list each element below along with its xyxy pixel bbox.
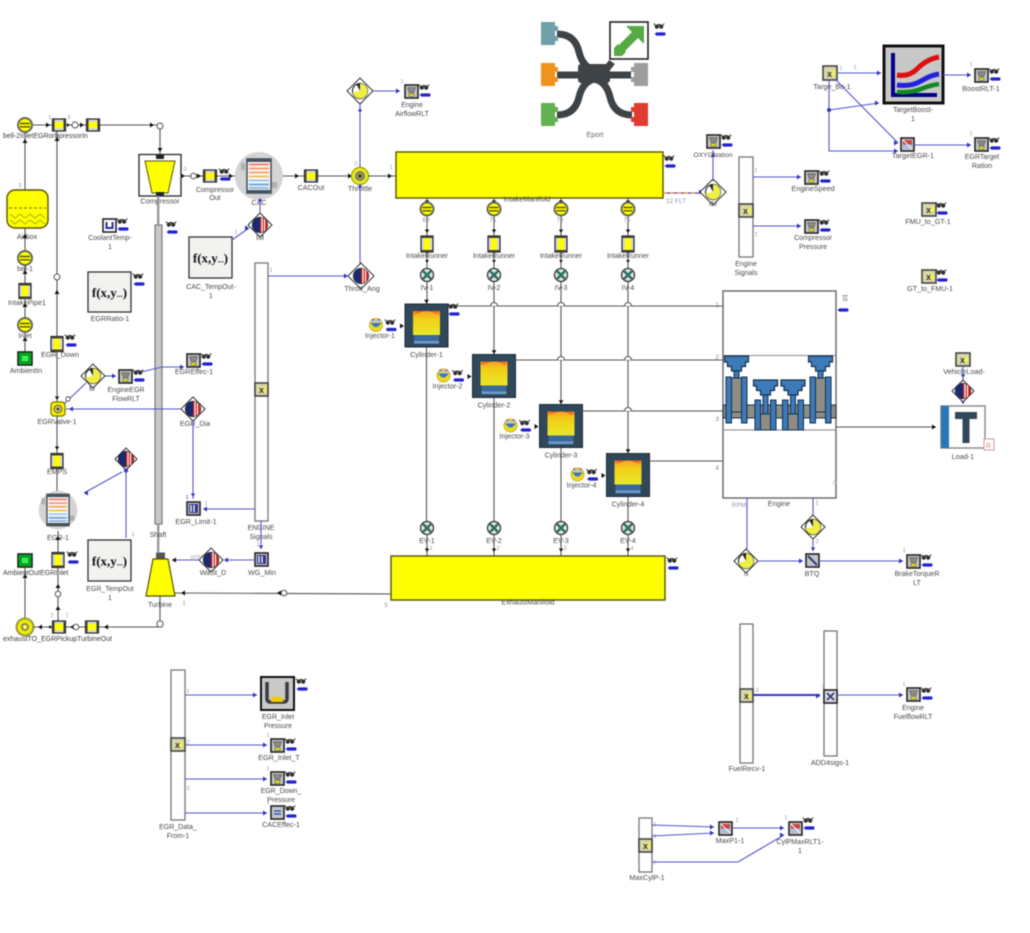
svg-text:Compressor: Compressor (140, 197, 180, 206)
svg-text:IntakeRunner: IntakeRunner (406, 253, 449, 260)
valve IV-3 (555, 269, 568, 282)
svg-text:x: x (827, 69, 832, 79)
svg-text:x: x (175, 740, 180, 750)
gauge EGR_Inlet Pressure (261, 677, 294, 710)
eport red connector (631, 103, 648, 126)
cylinder Cylinder-2 (473, 355, 516, 398)
signal GT_to_FMU-1 (922, 270, 936, 283)
wire EGR_Dia to EGRValve-1 (66, 408, 181, 410)
svg-text:10: 10 (841, 294, 848, 302)
throttle Throttle (352, 168, 369, 185)
svg-text:R: R (986, 443, 991, 450)
svg-text:1: 1 (269, 268, 272, 274)
svg-text:Pressure: Pressure (264, 723, 292, 730)
actuator EGR cooler temp diamond (115, 448, 137, 470)
svg-text:1: 1 (821, 685, 824, 691)
pipe CACOut (305, 170, 318, 182)
valve IV-4 (622, 269, 635, 282)
valve IV-2 (488, 269, 501, 282)
svg-text:RPM: RPM (732, 502, 746, 509)
wire EV column 2 (493, 398, 495, 522)
cooler EGR-1 (39, 491, 78, 530)
wire EV-2 to exhaust manifold (493, 534, 495, 556)
svg-text:x: x (643, 841, 648, 851)
monitor CylPMaxRLT1-1 (789, 822, 802, 835)
wire EV column 4 (627, 497, 629, 522)
wire engine to Load-1 (836, 426, 936, 428)
signal Target_Bo-1 (823, 66, 837, 80)
svg-text:Cylinder-3: Cylinder-3 (545, 451, 578, 460)
svg-text:EGR_TempOut: EGR_TempOut (86, 586, 134, 593)
wire CAC to CACOut to Throttle (283, 175, 352, 177)
wire EGR_Dia to EGR_Limit-1 (192, 421, 194, 499)
wire airbox up to bell-2 (24, 132, 26, 190)
actuator IM oxygen (700, 179, 726, 205)
svg-text:2: 2 (18, 183, 21, 189)
svg-text:1: 1 (108, 595, 112, 602)
svg-text:1: 1 (400, 79, 403, 85)
sensor glasses cylinder-1 (448, 304, 458, 309)
node between pipes (72, 122, 78, 128)
actuator Thrott_Ang (348, 263, 374, 289)
bellmouth runner inlet 1 (421, 203, 434, 216)
svg-text:MaxCylP-1: MaxCylP-1 (629, 873, 664, 882)
monitor WG_Min (255, 553, 268, 566)
svg-text:EGR_Limit-1: EGR_Limit-1 (175, 517, 216, 526)
svg-text:CAC_TempOut-: CAC_TempOut- (186, 284, 236, 291)
engine piston 4 (809, 356, 833, 371)
svg-text:x: x (926, 205, 931, 215)
wire EV-4 to exhaust manifold (627, 534, 629, 556)
svg-text:2: 2 (754, 232, 757, 238)
cylinder Cylinder-3 (540, 405, 583, 448)
wire Target_Bo-1 to TargetBoost-1 (837, 72, 881, 74)
svg-text:x: x (743, 206, 748, 216)
eport orange connector (541, 63, 558, 86)
wire manifold to cylinder column 2 (493, 198, 495, 355)
pipe IntakeRunner-2 (488, 236, 500, 252)
eport teal connector (541, 22, 558, 45)
wire EGR_Down to EGRValve-1 (56, 351, 58, 404)
wire bell-1 to IntakePipe1 (24, 265, 26, 283)
svg-text:1: 1 (256, 542, 259, 548)
pipe IntakeRunner-1 (421, 236, 433, 252)
svg-text:IM: IM (709, 199, 717, 208)
wire AmbientOut down to exhaust (24, 567, 26, 619)
pipe IntakeRunner-3 (555, 236, 567, 252)
math MaxP1-1 (719, 822, 732, 835)
svg-text:1: 1 (186, 689, 189, 695)
svg-text:FuelRecv-1: FuelRecv-1 (729, 764, 766, 773)
monitor EngineSpeed (805, 171, 818, 184)
wire to EGR_Down_Pressure (185, 778, 267, 780)
svg-text:CAC: CAC (251, 198, 266, 207)
valve EV-1 (421, 522, 434, 535)
pipe TO_EGRPickup (53, 621, 66, 633)
svg-text:1: 1 (185, 495, 188, 501)
actuator torque diamond (801, 515, 825, 539)
svg-text:x: x (744, 691, 749, 701)
svg-text:EngineSpeed: EngineSpeed (791, 184, 834, 193)
svg-text:f(x,y...): f(x,y...) (92, 285, 127, 300)
signal ADD4sigs-1 receiver (824, 631, 837, 756)
svg-text:BoostRLT-1: BoostRLT-1 (962, 84, 999, 93)
wire ENGINE signals to Thrott_Ang (268, 275, 348, 277)
svg-text:IM: IM (256, 233, 264, 242)
eport connector group (557, 34, 632, 115)
svg-text:IV-2: IV-2 (488, 283, 501, 292)
svg-text:2: 2 (496, 546, 499, 552)
actuator throttle motor diamond (359, 103, 361, 167)
wire M to EngineEGRFlowRLT (105, 375, 116, 377)
svg-text:exhaustTO_EGRPickupTurbineOut: exhaustTO_EGRPickupTurbineOut (3, 636, 112, 643)
wire cylinder 4 to engine port (650, 460, 724, 462)
wire to EGREffec-1 (137, 367, 184, 373)
math ADD4sigs-1 icon (824, 690, 837, 703)
svg-text:OXYGNation: OXYGNation (693, 152, 733, 159)
svg-text:Compressor: Compressor (794, 235, 833, 242)
injector Injector-1 (370, 319, 383, 332)
intercooler CAC (235, 152, 283, 200)
svg-text:f(x,y...): f(x,y...) (193, 251, 228, 266)
monitor CompressorPressure (805, 220, 818, 233)
wire IM to OXYGNation (712, 150, 714, 181)
svg-text:AmbientOutEGRInlet: AmbientOutEGRInlet (3, 570, 68, 577)
svg-text:12 FLT: 12 FLT (666, 198, 686, 205)
svg-text:Cylinder-1: Cylinder-1 (410, 350, 443, 359)
flowsplit IntakeManifold (396, 152, 663, 198)
monitor EGR_Limit-1 (187, 502, 200, 515)
monitor EngineAirflowRLT (405, 85, 418, 98)
eport gray connector (631, 63, 648, 86)
svg-text:1: 1 (911, 116, 915, 123)
svg-text:IV-3: IV-3 (555, 283, 568, 292)
svg-text:71: 71 (490, 218, 497, 224)
cylinder Cylinder-4 (607, 454, 650, 497)
svg-text:x: x (960, 355, 965, 365)
eport link icon (610, 22, 648, 59)
valve EV-4 (622, 522, 635, 535)
wire cylinder 1 to engine port (448, 305, 723, 307)
sensor CoolantTemp-1 (103, 219, 116, 232)
pipe EMPS (51, 454, 63, 469)
svg-text:From-1: From-1 (167, 833, 190, 840)
wire N to BTQ (758, 560, 803, 562)
svg-text:3: 3 (563, 546, 566, 552)
wire to EGR_Inlet Pressure (185, 694, 257, 696)
svg-text:Injector-3: Injector-3 (500, 432, 530, 441)
wire manifold to cylinder column 4 (627, 198, 629, 455)
signal FuelRecv-1 receiver (740, 624, 753, 763)
wire exhaust row (33, 596, 160, 627)
function EGRRatio-1 (88, 272, 131, 312)
svg-text:bell-2InletEGRorbpressorIn: bell-2InletEGRorbpressorIn (3, 133, 88, 140)
wire EGR_TempOut-1 to diamond (125, 470, 127, 538)
wire to EngineSpeed (753, 176, 801, 178)
signal FMU_to_GT-1 (922, 203, 936, 216)
svg-text:Cylinder-4: Cylinder-4 (612, 500, 645, 509)
sensor glasses near shaft (166, 222, 176, 227)
monitor EngineEGRFlowRLT (119, 370, 132, 383)
svg-text:1: 1 (266, 733, 269, 739)
svg-text:1: 1 (902, 682, 905, 688)
svg-text:IntakePipe1: IntakePipe1 (8, 298, 46, 307)
svg-text:1: 1 (784, 815, 787, 821)
svg-text:2: 2 (653, 834, 656, 840)
svg-text:1: 1 (735, 818, 738, 824)
shaft Shaft (155, 225, 162, 524)
svg-text:ExhaustManifold: ExhaustManifold (501, 598, 554, 607)
bellmouth runner inlet 2 (488, 203, 501, 216)
wire pipe to EGR_Down (56, 131, 58, 338)
wire airbox to bell-1 (24, 228, 26, 251)
svg-text:Shaft: Shaft (150, 530, 167, 539)
wire engine port1 down to diamond (812, 498, 814, 515)
pipe Inlet (53, 119, 66, 131)
monitor OXYGNation (707, 135, 720, 148)
svg-text:Eport: Eport (586, 130, 603, 139)
svg-text:f(x,y...): f(x,y...) (92, 554, 127, 569)
wire Inlet to AmbientIn (24, 332, 26, 352)
engine piston 2 (754, 380, 778, 395)
svg-text:69: 69 (423, 218, 430, 224)
svg-text:Engine: Engine (735, 261, 757, 268)
valve EV-3 (555, 522, 568, 535)
wire manifold to cylinder column 3 (560, 198, 562, 405)
wire BTQ to BrakeTorqueRLT (819, 560, 903, 562)
svg-text:2: 2 (815, 539, 818, 545)
pipe TurbineOut (86, 621, 99, 633)
svg-text:ADD4sigs-1: ADD4sigs-1 (811, 758, 849, 767)
wire diamond to BTQ (812, 539, 814, 551)
wire manifold to O2 sensor dashed (663, 192, 700, 194)
wire cylinder 3 to engine port (583, 410, 724, 412)
svg-text:0: 0 (833, 480, 837, 487)
monitor EGR_Inlet_T (271, 739, 284, 752)
svg-text:WaSt_D: WaSt_D (200, 568, 227, 577)
wires Target_Bo-1 to TargetEGR-1 (829, 80, 898, 151)
svg-text:IntakeRunner: IntakeRunner (473, 253, 516, 260)
actuator M EGR valve motor (81, 364, 105, 388)
svg-text:IV-1: IV-1 (421, 283, 434, 292)
svg-text:1: 1 (234, 230, 237, 236)
svg-text:IntakeRunner: IntakeRunner (540, 253, 583, 260)
monitor EGR_Down_Pressure (271, 772, 284, 785)
injector Injector-4 (571, 468, 584, 481)
svg-text:1: 1 (839, 66, 842, 72)
wire exhaust manifold to turbine (175, 593, 391, 594)
turbine Turbine (146, 553, 175, 597)
wire ADD4sigs to EngineFuelflowRLT (837, 694, 903, 696)
pipe IntakeRunner-4 (622, 236, 634, 252)
wire EV-3 to exhaust manifold (560, 534, 562, 556)
svg-text:75: 75 (624, 218, 631, 224)
monitor BoostRLT-1 (975, 69, 988, 82)
svg-text:EGR_Inlet: EGR_Inlet (262, 714, 294, 721)
svg-text:EGR_Inlet_T: EGR_Inlet_T (258, 753, 300, 762)
wire EGR-1 to EGRInlet (57, 531, 59, 553)
svg-text:FlowRLT: FlowRLT (112, 396, 140, 403)
wire VehicleLoad to diamond to Load-1 (962, 366, 964, 404)
map TargetEGR-1 (901, 138, 914, 151)
svg-text:1: 1 (131, 532, 134, 538)
svg-text:4: 4 (715, 465, 719, 472)
wire engine rpm down (746, 498, 748, 549)
svg-text:EGRRatio-1: EGRRatio-1 (91, 314, 130, 323)
svg-text:x: x (259, 385, 264, 395)
svg-text:Thrott_Ang: Thrott_Ang (344, 284, 380, 293)
bellmouth runner inlet 3 (555, 203, 568, 216)
wire ENGINE signals to EGR_Limit-1 (203, 508, 255, 510)
svg-text:1: 1 (65, 613, 68, 619)
svg-text:EngineEGR: EngineEGR (108, 387, 145, 394)
flowsplit ExhaustManifold (391, 556, 665, 600)
engine piston 3 (781, 380, 805, 395)
svg-text:4: 4 (630, 546, 633, 552)
wire M to EGRValve-1 (64, 383, 86, 404)
bellmouth runner inlet 4 (622, 203, 635, 216)
wire MaxCylP port2 to CylPMaxRLT1 (652, 835, 784, 862)
wire EV-1 to exhaust manifold (426, 534, 428, 556)
svg-text:N: N (744, 572, 748, 578)
svg-text:EGR_Data_: EGR_Data_ (159, 824, 197, 831)
svg-text:3: 3 (755, 688, 758, 694)
svg-text:1: 1 (429, 546, 432, 552)
svg-text:IntakeManifold: IntakeManifold (504, 195, 551, 204)
svg-text:MaxP1-1: MaxP1-1 (716, 836, 745, 845)
monitor EGRTargetRation (975, 138, 988, 151)
svg-text:Turbine: Turbine (148, 600, 172, 609)
wire IntakePipe1 to Inlet (24, 298, 26, 318)
engine piston 1 (725, 356, 749, 371)
injector Injector-2 (437, 369, 450, 382)
wire throttle motor to EngineAirflowRLT (373, 90, 400, 92)
svg-text:AirflowRLT: AirflowRLT (395, 111, 429, 118)
load Load-1 (941, 406, 985, 448)
injector Injector-3 (504, 419, 517, 432)
actuator IM intercooler (248, 213, 272, 237)
math BTQ (806, 554, 819, 567)
svg-text:2: 2 (653, 860, 656, 866)
svg-text:TargetEGR-1: TargetEGR-1 (892, 151, 934, 160)
signal ENGINE Signals receiver (255, 263, 268, 521)
svg-text:Injector-2: Injector-2 (433, 382, 463, 391)
svg-text:1: 1 (715, 302, 719, 309)
wire ENGINE signals to WG_Min (260, 521, 262, 549)
svg-text:1: 1 (902, 548, 905, 554)
wire manifold to cylinder column 1 (426, 198, 428, 305)
monitor EGREffec-1 (187, 354, 200, 367)
pipe CompressorIn (87, 119, 100, 131)
svg-text:x: x (926, 272, 931, 282)
actuator vehicle load diamond (952, 380, 974, 402)
signal Engine Signals receiver (739, 157, 753, 257)
signal EGR_Data_From-1 receiver (171, 670, 185, 820)
valve IV-1 (421, 269, 434, 282)
wire to EGR_Inlet_T (185, 744, 267, 746)
svg-text:0: 0 (183, 167, 186, 173)
wire throttle to Thrott_Ang (359, 184, 361, 264)
bellmouth Inlet (18, 318, 32, 332)
function CAC_TempOut-1 (189, 237, 232, 278)
wire CAC_TempOut-1 to IM mixer (232, 228, 249, 240)
svg-text:M: M (89, 384, 95, 393)
endenvironment AmbientIn (18, 352, 32, 365)
svg-text:Pressure: Pressure (799, 244, 827, 251)
map TargetBoost-1 (884, 46, 943, 103)
svg-text:Out: Out (209, 195, 220, 202)
bellmouth bell-2 (18, 118, 32, 132)
signal VehicleLoad- (956, 353, 970, 366)
svg-text:1: 1 (266, 766, 269, 772)
svg-text:1: 1 (266, 800, 269, 806)
actuator N diamond (734, 549, 758, 573)
wire EV column 1 (426, 347, 428, 521)
svg-text:1: 1 (204, 501, 207, 507)
endenvironment AmbientOut (18, 554, 32, 567)
wire WG_Min to WaSt_D to turbine (224, 559, 255, 561)
svg-text:BrakeTorqueR: BrakeTorqueR (895, 571, 940, 578)
actuator EGR_Dia (181, 397, 205, 421)
wire diamond to EGR-1 (84, 472, 122, 493)
svg-text:1: 1 (798, 848, 802, 855)
svg-text:AmbientIn: AmbientIn (10, 366, 42, 375)
pipe IntakePipe1 (19, 284, 31, 299)
svg-text:GT_to_FMU-1: GT_to_FMU-1 (907, 284, 953, 293)
svg-text:Load-1: Load-1 (952, 452, 974, 461)
monitor EngineFuelflowRLT (907, 688, 920, 701)
valve EV-2 (488, 522, 501, 535)
svg-text:2: 2 (50, 613, 53, 619)
airbox Airbox (7, 190, 48, 228)
actuator WaSt_D (199, 548, 223, 572)
svg-text:Injector-1: Injector-1 (365, 331, 395, 340)
svg-text:CylPMaxRLT1-: CylPMaxRLT1- (777, 839, 825, 846)
wire to CompressorPressure (753, 225, 801, 227)
pipe EGRInlet (52, 553, 64, 568)
svg-text:EGRTarget: EGRTarget (965, 154, 1000, 161)
compressor Compressor (139, 155, 181, 197)
engine Engine cranktrain (723, 291, 836, 498)
wire throttle to manifold (368, 175, 396, 177)
svg-text:prW: prW (191, 555, 202, 561)
svg-text:1: 1 (389, 165, 392, 171)
svg-text:CACEffec-1: CACEffec-1 (262, 820, 300, 829)
wire FuelRecv to ADD4sigs (753, 694, 820, 696)
svg-text:EGR_Dia: EGR_Dia (180, 419, 210, 428)
monitor BrakeTorqueRLT (907, 555, 920, 568)
svg-text:2: 2 (67, 115, 70, 121)
wire EMPS to EGR-1 (56, 468, 58, 492)
svg-text:73: 73 (557, 218, 564, 224)
cylinder Cylinder-1 (405, 304, 448, 347)
function EGR_TempOut-1 (88, 540, 131, 581)
signal MaxCylP-1 receiver (639, 818, 652, 872)
svg-text:1: 1 (108, 244, 112, 251)
svg-text:IntakeRunner: IntakeRunner (607, 253, 650, 260)
svg-text:Signals: Signals (735, 270, 758, 277)
svg-text:Engine: Engine (401, 102, 423, 109)
svg-text:1: 1 (48, 115, 51, 121)
svg-text:CACOut: CACOut (298, 183, 325, 192)
svg-text:Pressure: Pressure (267, 797, 295, 804)
svg-text:2: 2 (715, 354, 719, 361)
svg-text:1: 1 (853, 65, 856, 71)
wire EGRValve-1 to EMPS (56, 416, 58, 454)
engine crank band (723, 405, 836, 418)
svg-text:Cylinder-2: Cylinder-2 (478, 401, 511, 410)
pipe Compressor Out (204, 170, 217, 182)
